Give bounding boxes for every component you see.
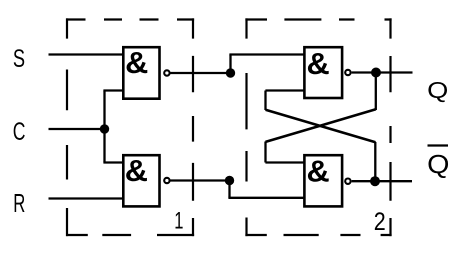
svg-text:S: S (13, 44, 25, 72)
svg-text:&: & (307, 47, 330, 81)
svg-text:Q: Q (427, 149, 449, 179)
svg-text:1: 1 (174, 208, 183, 235)
svg-text:C: C (13, 117, 26, 146)
svg-text:R: R (13, 188, 25, 218)
svg-text:&: & (125, 153, 148, 187)
svg-text:Q: Q (427, 78, 448, 104)
svg-text:&: & (307, 154, 330, 188)
svg-text:2: 2 (374, 207, 386, 235)
svg-text:&: & (125, 45, 148, 79)
